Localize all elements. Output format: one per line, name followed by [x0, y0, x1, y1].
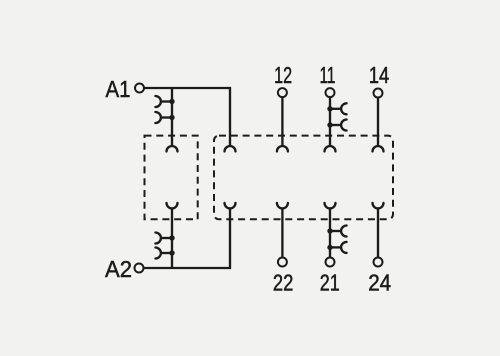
junction dot 21 upper: [327, 228, 332, 233]
svg-text:22: 22: [273, 270, 294, 296]
wire A1 coil branch vertical: [171, 88, 173, 146]
socket fork A2 right (x=230): [225, 203, 236, 209]
plug contact stub 21 lower: [330, 246, 341, 248]
junction dot A2 upper: [169, 235, 174, 240]
svg-text:11: 11: [320, 62, 336, 88]
svg-text:24: 24: [368, 270, 391, 296]
plug contact hook 21 upper: [341, 226, 347, 237]
wire 21 vertical: [329, 208, 331, 257]
socket fork 14: [373, 146, 384, 152]
socket fork 11: [325, 146, 336, 152]
junction dot 11 lower: [327, 122, 332, 127]
plug contact hook A1 lower: [155, 112, 161, 123]
terminal 11: [326, 88, 335, 97]
svg-text:A1: A1: [106, 76, 131, 102]
wire A2 coil branch vertical: [171, 208, 173, 268]
plug contact hook A2 upper: [155, 233, 161, 244]
plug contact hook 11 lower: [341, 120, 347, 131]
wire A1 right vertical: [229, 87, 231, 146]
terminal 24: [374, 258, 383, 267]
plug contact stub 21 upper: [330, 230, 341, 232]
socket fork coil top (x=172): [167, 146, 178, 152]
svg-text:21: 21: [320, 270, 340, 296]
socket fork coil bottom (x=172): [167, 203, 178, 209]
socket fork 24: [373, 203, 384, 209]
svg-text:A2: A2: [105, 256, 132, 282]
socket fork 21: [325, 203, 336, 209]
terminal A1: [135, 84, 144, 93]
terminal 14: [374, 89, 383, 98]
plug contact stub A2 upper: [161, 237, 172, 239]
terminal A2: [135, 264, 144, 273]
coil enclosure K1 (left dashed box): [145, 136, 198, 220]
wire 14 vertical: [377, 98, 379, 146]
wire 11 vertical: [329, 97, 331, 146]
junction dot A1 lower: [169, 115, 174, 120]
plug contact stub A1 lower: [161, 116, 172, 118]
socket fork A1 right (x=230): [225, 146, 236, 152]
junction dot 21 lower: [327, 245, 332, 250]
wire A1 horizontal: [144, 87, 230, 89]
plug contact stub 11 upper: [330, 108, 341, 110]
svg-text:14: 14: [369, 62, 390, 88]
plug contact hook A2 lower: [155, 248, 161, 259]
plug contact hook 21 lower: [341, 242, 347, 253]
wire A2 horizontal: [144, 267, 230, 269]
junction dot A1 upper: [169, 99, 174, 104]
plug contact stub A1 upper: [161, 100, 172, 102]
terminal 21: [326, 258, 335, 267]
plug contact hook 11 upper: [341, 103, 347, 114]
terminal 12: [278, 88, 287, 97]
socket fork 12: [277, 146, 288, 152]
wire 24 vertical: [377, 208, 379, 257]
plug contact hook A1 upper: [155, 96, 161, 107]
terminal 22: [278, 258, 287, 267]
junction dot 11 upper: [327, 106, 332, 111]
plug contact stub 11 lower: [330, 124, 341, 126]
svg-text:12: 12: [274, 62, 292, 88]
plug contact stub A2 lower: [161, 252, 172, 254]
contact enclosure (right dashed box): [214, 136, 393, 220]
wire A2 right vertical: [229, 208, 231, 269]
junction dot A2 lower: [169, 250, 174, 255]
socket fork 22: [277, 203, 288, 209]
wire 12 vertical: [281, 97, 283, 146]
wire 22 vertical: [281, 208, 283, 257]
